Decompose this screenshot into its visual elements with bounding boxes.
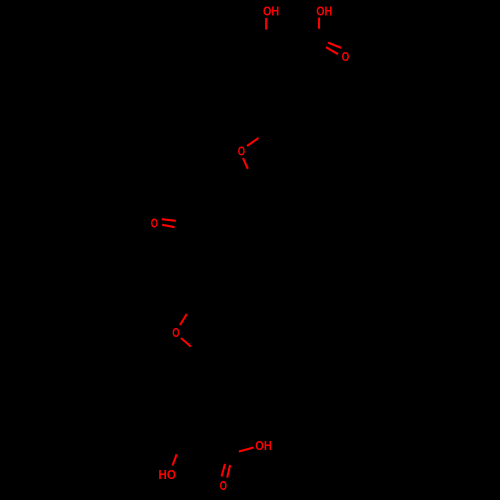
svg-text:O: O [220, 479, 228, 493]
svg-text:OH: OH [316, 4, 332, 18]
svg-text:O: O [151, 216, 158, 230]
svg-text:OH: OH [255, 439, 272, 453]
svg-text:OH: OH [263, 4, 279, 18]
svg-text:O: O [238, 144, 246, 158]
svg-text:HO: HO [158, 468, 176, 482]
svg-text:O: O [342, 50, 350, 64]
svg-text:O: O [172, 326, 180, 340]
